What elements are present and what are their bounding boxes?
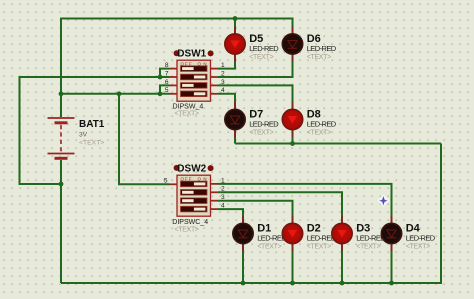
DSW2 switch 4 (OFF) (181, 206, 208, 212)
svg-text:8: 8 (165, 62, 169, 69)
svg-text:BAT1: BAT1 (79, 119, 105, 130)
svg-text:DSW1: DSW1 (177, 49, 206, 60)
wire D6 anode drop (292, 19, 294, 28)
pin 3 stub (210, 200, 218, 202)
junction D4 cathode on bottom rail (389, 281, 394, 286)
DSW1 pin numbers (165, 62, 225, 94)
wire DSW2 pin 1 to D4 (218, 184, 392, 217)
wire battery negative vertical (60, 160, 62, 283)
led D4 (off) (381, 216, 435, 251)
pin 5 stub (169, 93, 178, 95)
wire DSW1 pin 8 link (160, 69, 169, 77)
DSW1 handle dots (174, 50, 180, 56)
svg-text:<TEXT>: <TEXT> (307, 54, 332, 61)
svg-text:<TEXT>: <TEXT> (249, 129, 274, 136)
svg-text:2: 2 (221, 70, 225, 77)
led D5 (lit) (225, 27, 279, 62)
led D6 (off) (282, 27, 336, 62)
DSW2 switch 1 (OFF) (181, 181, 208, 187)
svg-text:LED-RED: LED-RED (249, 44, 279, 53)
svg-text:1: 1 (221, 177, 225, 184)
wire bottom rail (61, 282, 441, 284)
svg-text:3V: 3V (79, 132, 88, 139)
svg-text:DIPSWC_4: DIPSWC_4 (172, 219, 208, 226)
svg-text:DSW2: DSW2 (177, 163, 206, 174)
junction DSW1 pins 5-6 (158, 91, 163, 96)
DSW2 switch 3 (ON) (181, 198, 208, 204)
svg-text:<TEXT>: <TEXT> (406, 243, 431, 250)
junction D2 cathode on bottom rail (290, 281, 295, 286)
wire DSW1 pin 4 to D7 anode (218, 94, 235, 103)
junction D5 anode tap (233, 16, 238, 21)
wire battery positive vertical (60, 18, 62, 118)
junction D1 cathode on bottom rail (241, 281, 246, 286)
svg-text:LED-RED: LED-RED (249, 119, 279, 128)
wire D5 cathode to DSW1 pin 1 (218, 61, 235, 69)
svg-text:6: 6 (165, 79, 169, 86)
wire D4 cathode drop (391, 251, 393, 283)
svg-text:<TEXT>: <TEXT> (307, 129, 332, 136)
wire D3 cathode drop (341, 251, 343, 283)
pin 4 stub (210, 208, 218, 210)
pin 3 stub (210, 84, 218, 86)
wire DSW2 pin 2 to D3 (218, 192, 342, 216)
dip switch DSW1 (165, 49, 225, 118)
led D7 (off) (225, 102, 279, 137)
cursor origin marker (377, 194, 390, 207)
svg-text:<TEXT>: <TEXT> (257, 243, 282, 250)
led D8 (lit) (282, 102, 336, 137)
wire DSW1 pin 6 link (160, 85, 169, 93)
svg-text:5: 5 (165, 87, 169, 94)
DSW2 switch 2 (ON) (181, 190, 208, 196)
svg-text:7: 7 (165, 70, 169, 77)
junction D8 cathode on mid rail (290, 141, 295, 146)
DSW2 body (177, 175, 211, 216)
DSW2 pin numbers (164, 177, 225, 209)
battery BAT1 (48, 118, 105, 158)
wire battery positive to DSW2 pin 5 (119, 94, 169, 185)
wire DSW1 pin 5 from battery positive (61, 93, 169, 95)
svg-text:2: 2 (221, 186, 225, 193)
svg-text:3: 3 (221, 79, 225, 86)
DSW2 handle dots (174, 165, 180, 171)
dip switch DSW2 (164, 163, 225, 233)
svg-text:1: 1 (221, 62, 225, 69)
wire top rail (60, 18, 294, 20)
pin 1 stub (210, 68, 218, 70)
DSW1 switch 3 (ON) (181, 83, 208, 89)
svg-text:<TEXT>: <TEXT> (249, 54, 274, 61)
wire DSW2 pin 4 to D1 (218, 209, 243, 216)
svg-text:<TEXT>: <TEXT> (79, 140, 104, 147)
svg-text:4: 4 (221, 87, 225, 94)
wire D1 cathode drop (242, 251, 244, 283)
pin 8 stub (169, 68, 178, 70)
svg-text:5: 5 (164, 178, 168, 185)
pin 6 stub (169, 84, 178, 86)
led D2 (lit) (282, 216, 336, 251)
svg-text:3: 3 (221, 194, 225, 201)
junction battery negative (59, 182, 64, 187)
junction D3 cathode on bottom rail (340, 281, 345, 286)
pin 5 stub (169, 183, 178, 185)
DSW1 switch 2 (OFF) (181, 74, 208, 80)
wire mid cathode rail (235, 143, 441, 145)
wire D8 cathode drop (292, 137, 294, 144)
svg-text:<TEXT>: <TEXT> (356, 243, 381, 250)
DSW1 switch 1 (ON) (181, 66, 208, 72)
wire right return vertical (440, 144, 442, 285)
wire D6 cathode to DSW1 pin 2 (218, 61, 293, 77)
wire D7 cathode drop (234, 137, 236, 144)
junction battery positive / pin5 net (59, 91, 64, 96)
wire D2 cathode drop (292, 251, 294, 283)
pin 7 stub (169, 76, 178, 78)
wire D5 anode drop (234, 19, 236, 28)
DSW1 switch 4 (OFF) (181, 91, 208, 97)
wire DSW1 pin 7 to left rail (20, 77, 170, 184)
pin 2 stub (210, 76, 218, 78)
svg-text:4: 4 (221, 203, 225, 210)
wire DSW1 pin 3 to D8 anode (218, 85, 293, 103)
svg-text:<TEXT>: <TEXT> (175, 227, 200, 234)
svg-text:LED-RED: LED-RED (307, 44, 337, 53)
svg-text:<TEXT>: <TEXT> (175, 110, 200, 117)
pin 1 stub (210, 183, 218, 185)
DSW1 body (177, 60, 211, 101)
svg-text:<TEXT>: <TEXT> (307, 243, 332, 250)
svg-text:LED-RED: LED-RED (307, 119, 337, 128)
junction DSW1 pins 7-8 (158, 75, 163, 80)
wire DSW2 pin 3 to D2 (218, 201, 293, 217)
junction pin5 net / DSW2 feed (117, 91, 122, 96)
svg-text:LED-RED: LED-RED (406, 233, 436, 242)
led D3 (lit) (332, 216, 386, 251)
pin 2 stub (210, 191, 218, 193)
pin 4 stub (210, 93, 218, 95)
led D1 (off) (233, 216, 287, 251)
